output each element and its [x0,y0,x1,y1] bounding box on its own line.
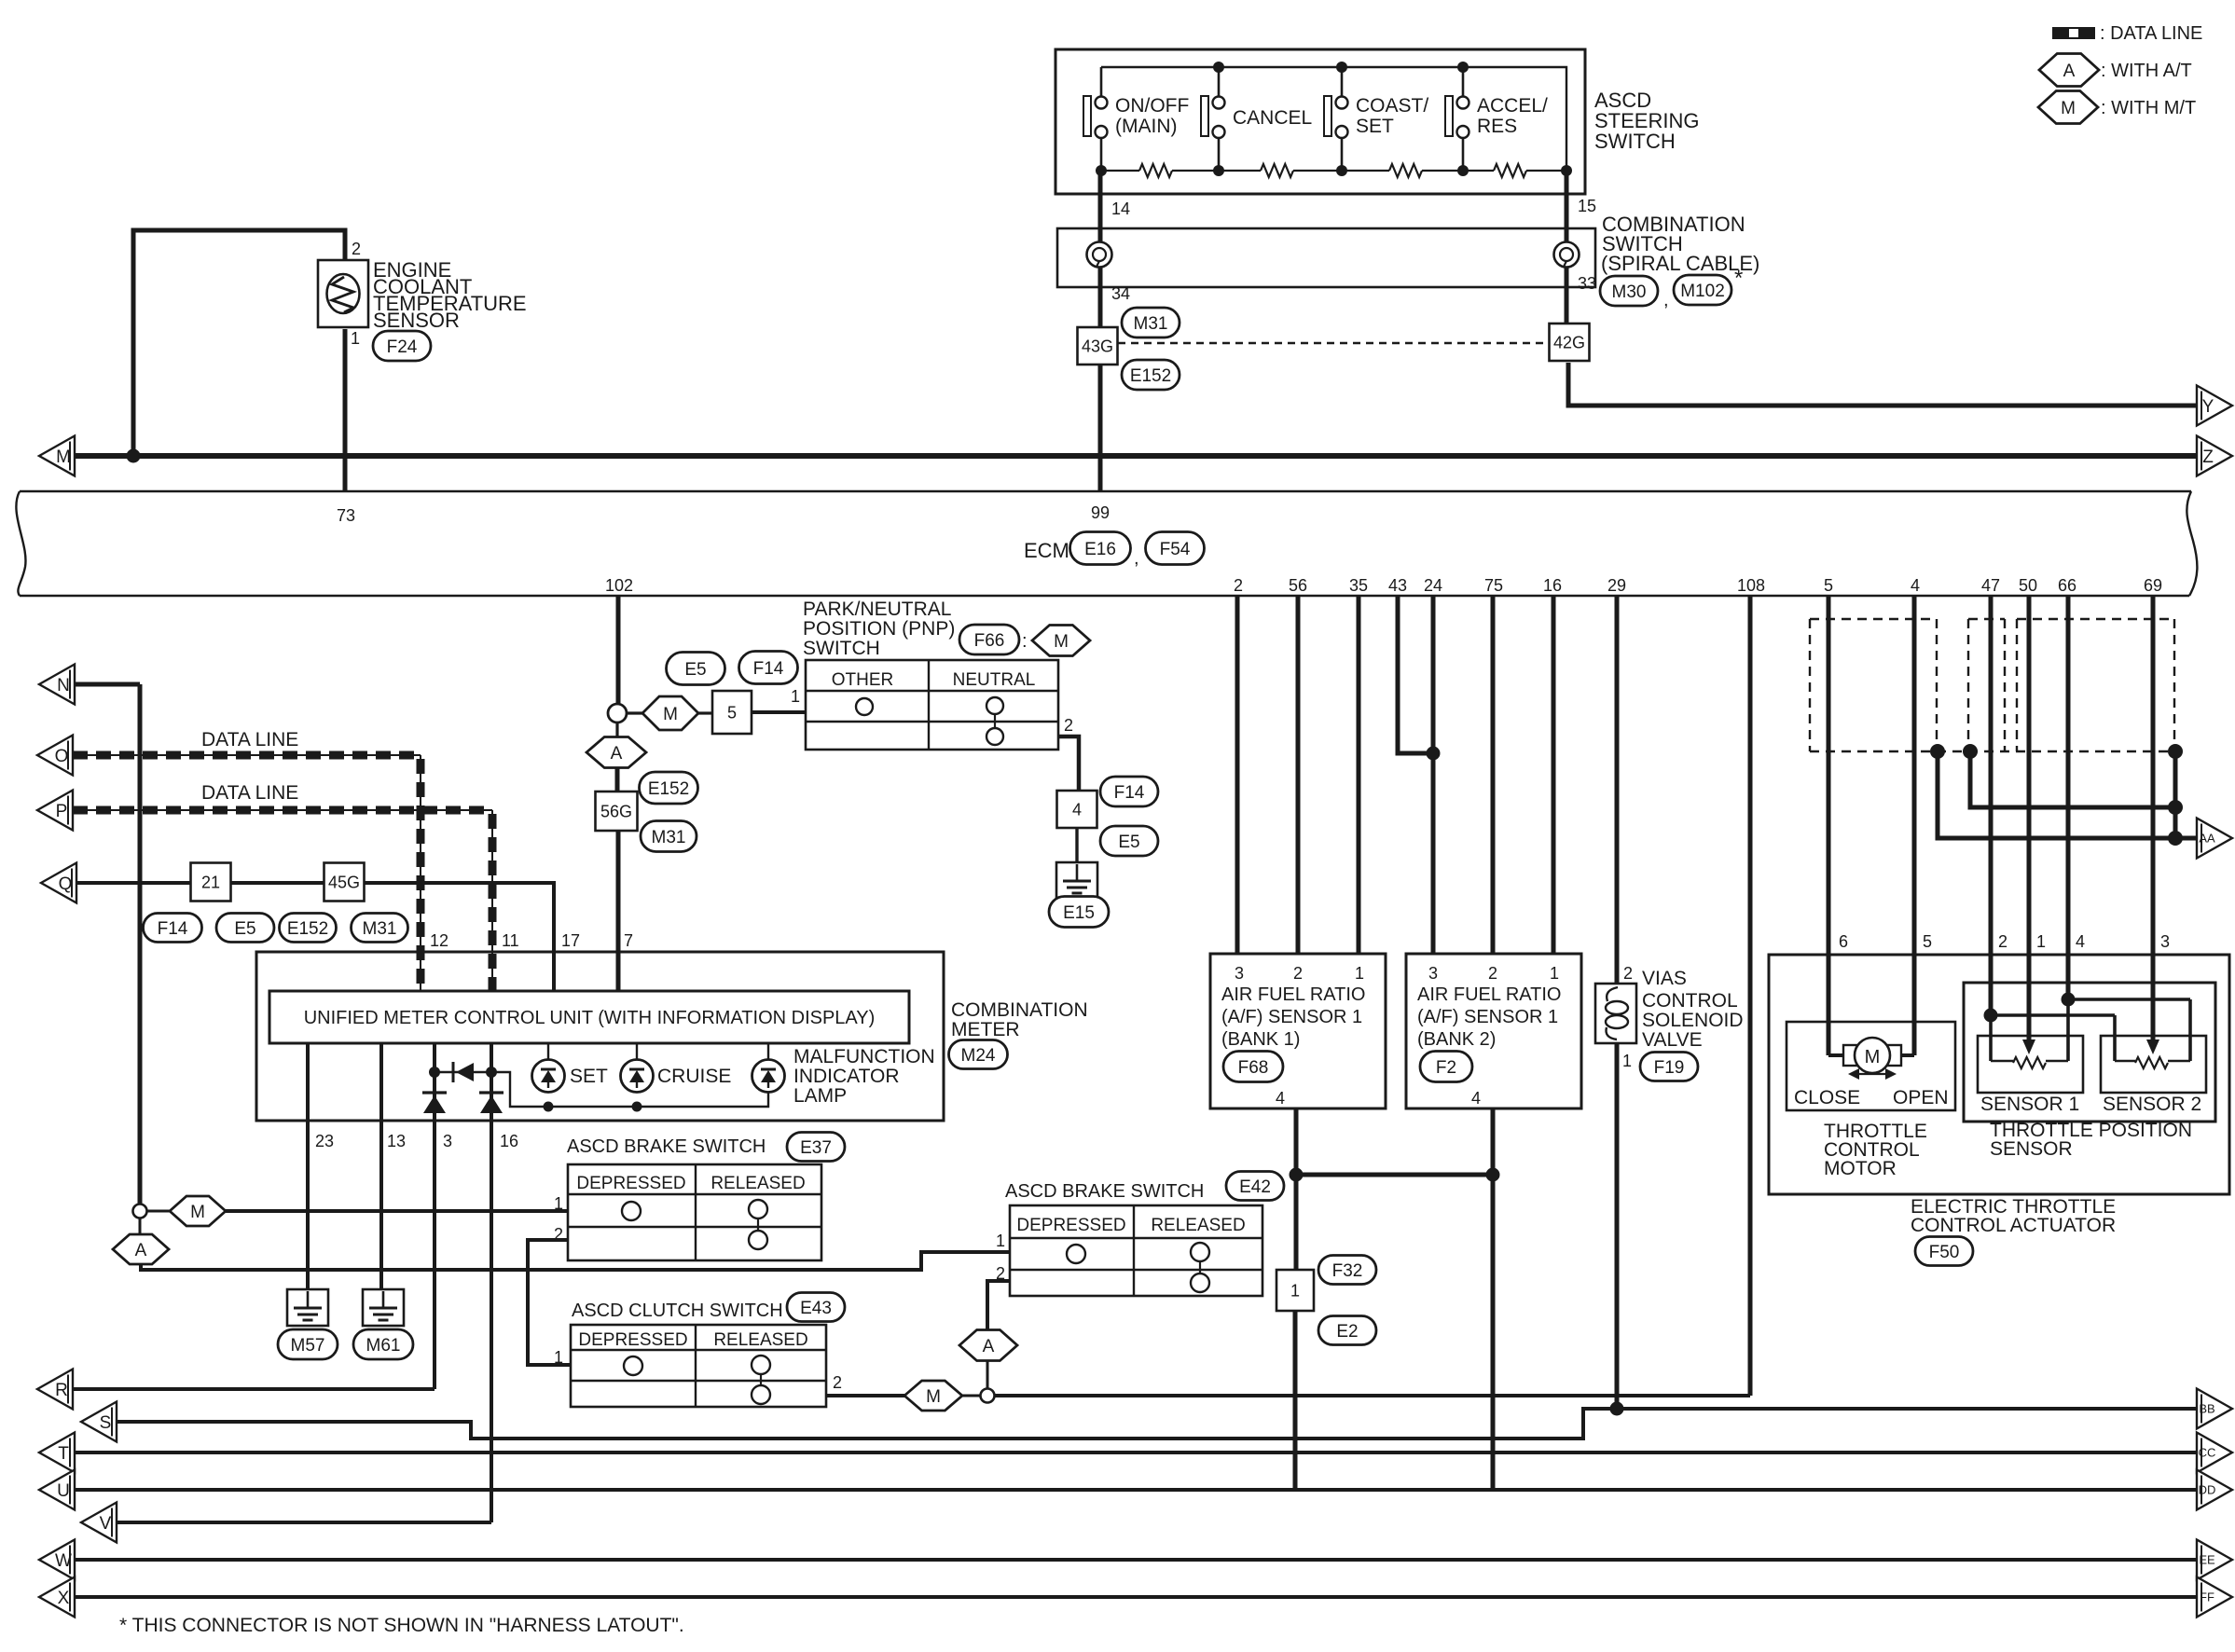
shield drain C [2168,744,2183,759]
svg-text:M102: M102 [1680,282,1725,301]
svg-text:R: R [55,1381,68,1400]
svg-text:METER: METER [951,1019,1020,1040]
svg-text:M31: M31 [652,828,686,847]
svg-text:3: 3 [1428,964,1438,983]
svg-text:2: 2 [1998,932,2007,951]
potentiometer sensor1 [2013,1057,2046,1068]
connector arrow P [37,791,73,831]
svg-text:: DATA LINE: : DATA LINE [2100,23,2202,44]
hexagon M (E43) [904,1381,962,1411]
TPS junction 2 [1984,1009,1998,1023]
wire 1-box to U line [1293,1311,1298,1490]
connector F50 [1915,1237,1973,1266]
svg-text:UNIFIED METER CONTROL UNIT (WI: UNIFIED METER CONTROL UNIT (WITH INFORMA… [304,1008,876,1028]
connector 5 box [712,691,752,734]
svg-text:F19: F19 [1654,1058,1685,1078]
svg-text:E42: E42 [1239,1177,1271,1197]
connector arrow DD [2197,1470,2232,1510]
svg-text:E5: E5 [234,919,255,939]
junction circle PNP branch [608,704,627,723]
svg-text:INDICATOR: INDICATOR [793,1066,900,1087]
svg-text:V: V [100,1514,112,1534]
svg-text:15: 15 [1578,197,1596,215]
sensor2 resistor loop [2115,1060,2135,1062]
svg-text:E5: E5 [1118,833,1139,852]
wire Q segment 3 [365,883,554,991]
connector F14 (top) [739,652,798,684]
svg-text:5: 5 [1923,932,1932,951]
svg-text:E152: E152 [1130,366,1171,386]
shield dashed box C [2017,618,2174,620]
svg-text:OTHER: OTHER [832,670,894,690]
switch ACCEL [1462,67,1465,97]
TPS wire pin2 branch [1991,1013,2115,1017]
svg-text:A: A [611,744,623,764]
svg-text:17: 17 [561,931,580,950]
connector F14 (PNP) [1100,777,1158,806]
wire ECM 24 to bank2 pin3 [1431,596,1436,954]
svg-text:3: 3 [443,1132,452,1150]
connector E43 [787,1293,845,1322]
svg-text:M: M [56,447,71,467]
ASCD brake switch E37 table [568,1164,821,1260]
svg-text:66: 66 [2058,576,2076,595]
svg-text:RELEASED: RELEASED [713,1330,807,1350]
svg-text:4: 4 [1471,1089,1481,1108]
ASCD top bus wire [1101,67,1566,171]
svg-text:*: * [1734,266,1743,291]
wire T to CC [75,1451,2199,1454]
wire bank2 pin4 [1491,1108,1496,1175]
shield dashed box B [1968,618,2005,620]
svg-text:2: 2 [352,240,361,258]
ECM box [20,490,2191,492]
wire ECM 66 to TPS pin4 [2066,596,2071,999]
connector F68 [1223,1052,1283,1082]
svg-text:,: , [1663,290,1669,310]
wire ECM 16 to bank2 pin1 [1552,596,1556,954]
sensor1 wiper arrow [2022,1039,2035,1054]
svg-text:PARK/NEUTRAL: PARK/NEUTRAL [803,599,951,620]
lamp bottom wire [491,1072,768,1107]
svg-text:ACCEL/: ACCEL/ [1477,95,1548,117]
svg-text:16: 16 [500,1132,518,1150]
motor direction arrows [1856,1073,1889,1075]
junction lamp cruise [632,1102,642,1112]
wire 43G to ECM pin 99 [1098,364,1103,491]
connector arrow CC [2197,1433,2232,1473]
sensor1 resistor loop [1991,1060,2013,1062]
connector 45G box [324,863,365,902]
junction VIAS-BB [1610,1402,1624,1416]
svg-text:23: 23 [315,1132,334,1150]
wire ASCD pin 14 to spiral cable [1098,171,1103,241]
legend hexagon M (with M/T) [2038,91,2098,124]
wire pin16 vertical [490,1043,493,1522]
wire bank joining [1296,1173,1493,1177]
svg-text:F54: F54 [1160,540,1191,559]
connector M61 [353,1329,413,1359]
wire Q segment 2 [231,881,324,885]
svg-text:1: 1 [996,1232,1005,1250]
junction bottom bus right [1561,165,1572,176]
sensor2 wiper arrow [2146,1039,2159,1054]
connector arrow R [37,1370,73,1410]
wire Q segment 1 [76,881,191,885]
connector M31 oval row [352,914,408,943]
svg-text:M: M [1054,632,1069,652]
connector arrow T [39,1433,75,1473]
connector arrow FF [2197,1577,2232,1618]
svg-text:1: 1 [1622,1052,1632,1070]
connector F24 [373,331,431,361]
svg-text:LAMP: LAMP [793,1085,847,1107]
wire ECM 4 to motor pin5 [1912,596,1917,1055]
svg-text:P: P [56,802,68,821]
resistor R2 [1261,164,1293,177]
svg-text:E15: E15 [1063,903,1095,923]
svg-text:12: 12 [430,931,448,950]
svg-text:M31: M31 [363,919,397,939]
hexagon A (102 line) [615,723,618,737]
svg-text:SET: SET [570,1066,608,1087]
svg-text:(A/F) SENSOR 1: (A/F) SENSOR 1 [1221,1007,1362,1027]
diode row wire [435,1071,491,1073]
hexagon A (E42) [959,1330,1017,1361]
wire N vertical [138,684,143,1205]
svg-text:SET: SET [1356,116,1394,137]
svg-text:SWITCH: SWITCH [803,638,880,659]
svg-text:A: A [135,1241,147,1260]
svg-text:43G: 43G [1082,337,1113,355]
connector E2 [1318,1316,1376,1345]
svg-text:Y: Y [2202,397,2214,417]
svg-text:RELEASED: RELEASED [711,1174,805,1193]
svg-text:RELEASED: RELEASED [1151,1216,1245,1235]
junction lamp set [544,1102,554,1112]
TPS junction 4 [2062,993,2076,1007]
wire sensor pin 1 to ECM 73 [343,329,348,491]
svg-text:Q: Q [59,874,73,894]
wire X to FF [75,1595,2199,1599]
svg-text:35: 35 [1349,576,1368,595]
wire ECM 5 to motor pin6 [1827,596,1831,1055]
svg-text:42G: 42G [1553,333,1585,351]
wire ECM 75 to bank2 pin2 [1491,596,1496,954]
shield dashed box A [1810,618,1937,620]
svg-text:DATA LINE: DATA LINE [201,729,298,750]
svg-text:CLOSE: CLOSE [1794,1087,1860,1108]
ground M61 [363,1289,404,1326]
junction circle brake branch [133,1205,147,1218]
connector F2 [1420,1052,1472,1082]
svg-text:SENSOR: SENSOR [373,309,460,332]
svg-text:ASCD BRAKE SWITCH: ASCD BRAKE SWITCH [1005,1181,1204,1202]
svg-text:EE: EE [2199,1553,2215,1567]
wire ECM 29 to VIAS [1615,596,1620,985]
svg-text:MALFUNCTION: MALFUNCTION [793,1046,935,1067]
junction 43-24 [1427,747,1441,761]
wire ECM 108 down [1748,596,1753,1396]
svg-text:ASCD CLUTCH SWITCH: ASCD CLUTCH SWITCH [572,1301,783,1321]
svg-text:O: O [55,747,69,766]
svg-text:(BANK 1): (BANK 1) [1221,1029,1300,1050]
svg-text:(A/F) SENSOR 1: (A/F) SENSOR 1 [1417,1007,1558,1027]
svg-text:M31: M31 [1134,314,1168,334]
wire A to 56G [615,767,620,792]
connector 4 box [1057,791,1097,828]
connector E152 oval [1122,360,1180,390]
resistor R4 [1494,164,1526,177]
svg-text:E43: E43 [800,1299,832,1318]
connector arrow V [81,1503,117,1543]
svg-text:2: 2 [1488,964,1497,983]
wire M to Z [75,453,2199,459]
svg-text:14: 14 [1111,200,1130,218]
svg-text:102: 102 [605,576,633,595]
svg-text:M61: M61 [366,1336,401,1356]
svg-text:E16: E16 [1084,540,1116,559]
svg-text:1: 1 [1550,964,1559,983]
svg-text:21: 21 [201,873,220,891]
svg-text:24: 24 [1424,576,1442,595]
svg-text:F14: F14 [158,919,188,939]
svg-text:* THIS CONNECTOR IS NOT SHOWN: * THIS CONNECTOR IS NOT SHOWN IN "HARNES… [119,1615,684,1636]
svg-text:A: A [2063,62,2076,81]
throttle control motor box [1787,1022,1955,1110]
wire VIAS to BB line [1615,1043,1620,1409]
junction diode right [486,1067,497,1078]
spiral cable symbol right [1554,242,1580,268]
hexagon M (PNP) [627,711,642,714]
svg-text:OPEN: OPEN [1893,1087,1949,1108]
svg-text:43: 43 [1388,576,1407,595]
ASCD brake switch E42 table [1010,1205,1262,1296]
junction bottom bus 4 [1457,165,1469,176]
svg-text:108: 108 [1737,576,1765,595]
connector M31 (56G) [641,821,697,852]
connector F14 oval row [144,914,202,943]
connector arrow M [39,436,75,476]
svg-text:M: M [1865,1047,1881,1067]
svg-text:5: 5 [1824,576,1833,595]
wire ECM 69 to TPS pin3 [2151,596,2156,1042]
wire ASCD pin 15 to spiral cable [1565,171,1569,241]
connector arrow N [39,665,75,705]
svg-text:N: N [57,676,70,695]
throttle position sensor box [1964,983,2215,1122]
connector arrow Z [2197,436,2232,476]
svg-text:Z: Z [2202,447,2214,467]
resistor R1 [1139,164,1172,177]
svg-text:S: S [100,1413,112,1433]
svg-text:4: 4 [1911,576,1920,595]
svg-text:1: 1 [554,1194,563,1213]
svg-text:CRUISE: CRUISE [657,1066,731,1087]
sensor 1 box [1978,1036,2083,1093]
junction circle clutch [981,1389,995,1403]
svg-text:POSITION (PNP): POSITION (PNP) [803,618,955,640]
wire ECM 102 down [616,596,621,704]
svg-text:MOTOR: MOTOR [1824,1158,1897,1179]
connector E42 [1226,1172,1284,1201]
wire ECM 50 to TPS pin1 [2027,596,2032,1042]
svg-text:AIR FUEL RATIO: AIR FUEL RATIO [1221,984,1365,1005]
svg-text:29: 29 [1607,576,1626,595]
svg-text:BB: BB [2199,1402,2214,1416]
svg-text:M24: M24 [961,1046,996,1066]
combination meter box [256,952,944,1121]
connector arrow O [37,736,73,776]
svg-text:5: 5 [727,703,737,722]
svg-text:1: 1 [1290,1281,1300,1300]
svg-text:COAST/: COAST/ [1356,95,1428,117]
svg-text:DATA LINE: DATA LINE [201,782,298,804]
wire E42 pin2 down [987,1281,1010,1330]
connector E152 oval row [280,914,337,943]
shield drain B [1963,744,1978,759]
junction bottom bus 3 [1336,165,1347,176]
svg-text:CC: CC [2199,1446,2216,1460]
svg-text:1: 1 [2036,932,2046,951]
connector arrow AA [2197,819,2232,859]
diode D3 (up right) [479,1091,504,1094]
svg-text:E5: E5 [684,660,706,680]
CRUISE lamp [636,1043,638,1060]
wire bank2-4 to DD [1491,1175,1496,1490]
svg-text:M: M [190,1203,205,1222]
wire 4 to ground [1075,828,1078,862]
wire ECM 35 to bank1 pin1 [1357,596,1361,954]
svg-text:F50: F50 [1929,1243,1960,1262]
svg-text:CANCEL: CANCEL [1233,107,1312,129]
svg-text:AA: AA [2199,832,2215,846]
connector arrow BB [2197,1389,2232,1429]
svg-text:3: 3 [1235,964,1244,983]
svg-text:F32: F32 [1332,1261,1363,1281]
svg-text:56: 56 [1289,576,1307,595]
wire circle to ECM 108 [994,1394,1750,1397]
connector 21 box [191,863,231,902]
connector 42G [1550,324,1590,361]
wire E37 pin2 to E43 pin1 [528,1240,571,1365]
wire V to meter pin16 [117,1521,491,1524]
diode D2 (up left) [422,1091,447,1094]
svg-text:ON/OFF: ON/OFF [1115,95,1189,117]
connector arrow X [39,1577,75,1618]
svg-text:1: 1 [1355,964,1364,983]
svg-text:(BANK 2): (BANK 2) [1417,1029,1496,1050]
spiral cable symbol left [1087,242,1112,268]
wire to 1-box [1294,1175,1299,1270]
connector M24 [949,1040,1008,1069]
legend data-line symbol [2052,27,2095,39]
wire bank1 pin4 [1294,1108,1299,1175]
connector arrow W [39,1540,75,1580]
svg-text:2: 2 [1623,964,1633,983]
dashed link 43G-42G [1118,342,1551,344]
electric throttle control actuator box [1769,955,2229,1194]
connector E5 (top) [667,653,725,685]
svg-text:2: 2 [1064,716,1073,735]
hexagon M (E37) [147,1210,171,1213]
svg-text:X: X [58,1589,70,1608]
shield drain A [1930,744,1945,759]
svg-text:73: 73 [337,506,355,525]
junction bank2-4 [1486,1168,1500,1182]
svg-text:W: W [55,1551,72,1571]
svg-text:M: M [2061,99,2076,118]
connector arrow Y [2197,386,2232,426]
svg-text:SENSOR 2: SENSOR 2 [2103,1094,2201,1115]
connector E15 [1049,897,1109,928]
svg-text:E152: E152 [648,779,689,799]
connector arrow S [81,1402,117,1442]
hexagon M (PNP title) [1032,626,1090,656]
svg-text:SENSOR 1: SENSOR 1 [1980,1094,2079,1115]
wire 42G to Y [1568,363,2199,406]
svg-text:11: 11 [502,931,519,950]
svg-text:34: 34 [1111,284,1130,303]
wire ECM 2 to bank1 pin3 [1235,596,1240,954]
ground E15 [1056,862,1097,899]
junction bottom bus 2 [1213,165,1224,176]
motor M circle [1843,1045,1858,1066]
connector E152 (56G) [640,772,698,804]
svg-text:COMBINATION: COMBINATION [951,999,1088,1021]
svg-text:2: 2 [1234,576,1243,595]
svg-text:DEPRESSED: DEPRESSED [1016,1216,1125,1235]
wire ECM 56 to bank1 pin2 [1296,596,1301,954]
potentiometer sensor2 [2135,1057,2168,1068]
wire S to BB [117,1409,2199,1439]
svg-text:1: 1 [351,329,360,348]
svg-text:13: 13 [387,1132,406,1150]
svg-text:3: 3 [2160,932,2170,951]
svg-text:4: 4 [2076,932,2085,951]
junction bottom bus 1 [1096,165,1107,176]
svg-text:AIR FUEL RATIO: AIR FUEL RATIO [1417,984,1561,1005]
svg-text:99: 99 [1091,503,1110,522]
svg-text:T: T [58,1444,69,1464]
air fuel ratio sensor bank2 box [1406,954,1581,1108]
junction top bus 1 [1213,62,1224,73]
svg-text:2: 2 [1293,964,1303,983]
svg-text:7: 7 [624,931,633,950]
junction top bus 3 [1457,62,1469,73]
svg-text:2: 2 [996,1264,1005,1283]
svg-text:M: M [926,1387,941,1407]
hexagon A (E37) [139,1218,142,1235]
ASCD bottom bus wire [1101,170,1139,172]
connector F66 [959,625,1019,654]
connector F32 [1318,1256,1376,1285]
svg-text:50: 50 [2019,576,2037,595]
TPS wire pin4 branch [2068,998,2190,1001]
svg-text:75: 75 [1484,576,1503,595]
wire pin3 vertical [433,1043,436,1389]
wire A line [141,1252,1010,1270]
data line wire O [73,754,421,756]
diode D1 (horizontal) [452,1062,455,1082]
unified meter control unit box [269,991,909,1043]
svg-text:M57: M57 [291,1336,325,1356]
svg-text:CONTROL: CONTROL [1642,990,1738,1012]
wire ECM 47 to TPS pin2 [1989,596,1994,1015]
svg-text:1: 1 [554,1348,563,1367]
ground M57 [287,1289,328,1326]
connector arrow U [39,1470,75,1510]
